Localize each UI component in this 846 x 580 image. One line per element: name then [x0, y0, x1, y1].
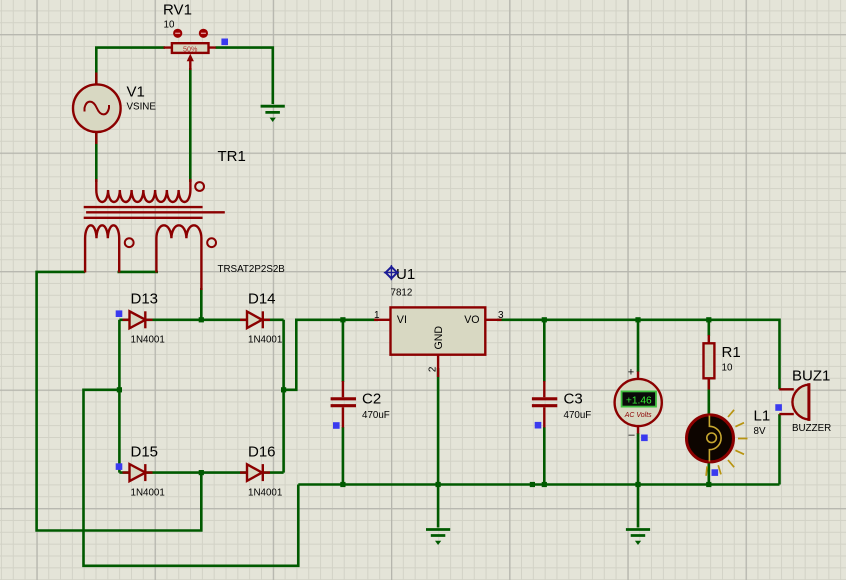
- svg-text:+1.46: +1.46: [626, 395, 652, 406]
- wire meter bottom to rail and ground: [637, 433, 640, 528]
- svg-text:470uF: 470uF: [362, 410, 390, 421]
- node meter top junction: [635, 317, 640, 322]
- node C3 bottom junction: [542, 482, 547, 487]
- regulator U1 7812: [374, 265, 504, 377]
- node bridge left junction: [117, 387, 122, 392]
- svg-text:RV1: RV1: [163, 2, 192, 19]
- svg-text:AC Volts: AC Volts: [624, 412, 652, 419]
- wire bottom ground rail: [298, 483, 779, 486]
- wire C2 bottom branch: [342, 427, 345, 485]
- transformer TR1: [84, 148, 286, 290]
- node C3 top junction: [542, 317, 547, 322]
- svg-text:D13: D13: [131, 291, 159, 308]
- ground under U1 pin 2: [426, 530, 450, 546]
- svg-text:D14: D14: [248, 291, 276, 308]
- diode D13: [123, 291, 165, 346]
- marker C2 blue handle: [333, 422, 340, 429]
- wire TR1 secondary center jumper: [118, 271, 159, 274]
- svg-text:1: 1: [374, 310, 380, 321]
- node C2 top junction: [340, 317, 345, 322]
- wire V1 bottom to TR1 primary left: [95, 132, 98, 182]
- wire R1 top branch: [707, 320, 710, 336]
- buzzer BUZ1: [779, 368, 831, 435]
- wire TR1 sec-right lead down to D13-D14 node: [200, 288, 203, 320]
- svg-text:VI: VI: [397, 314, 407, 326]
- wire C2 top branch: [342, 320, 345, 382]
- marker D15 blue handle: [116, 463, 123, 470]
- marker buzzer blue handle: [775, 404, 782, 411]
- wire RV1 right to ground: [216, 48, 273, 104]
- svg-text:D16: D16: [248, 443, 276, 460]
- wire bottom diode row D15 D16: [119, 471, 283, 474]
- wire C3 bottom branch: [543, 427, 546, 485]
- wire meter top branch: [637, 320, 640, 372]
- marker D13 blue handle: [116, 310, 123, 317]
- svg-text:VO: VO: [464, 314, 479, 326]
- node R1 top junction: [706, 317, 711, 322]
- wire lamp bottom to rail: [707, 460, 710, 485]
- svg-text:470uF: 470uF: [564, 410, 592, 421]
- ground top-right of RV1: [261, 106, 285, 122]
- wire C3 top branch: [543, 320, 546, 382]
- svg-text:BUZ1: BUZ1: [792, 368, 830, 385]
- marker RV1 blue handle: [221, 39, 228, 46]
- svg-text:10: 10: [164, 20, 175, 31]
- svg-text:R1: R1: [722, 344, 741, 361]
- node D13-D14 junction: [199, 317, 204, 322]
- svg-text:C2: C2: [362, 391, 381, 408]
- ground under meter: [626, 530, 650, 546]
- node U1 gnd junction: [436, 482, 441, 487]
- marker lamp blue handle: [712, 469, 719, 476]
- svg-text:3: 3: [498, 310, 504, 321]
- sine source V1: [73, 73, 156, 145]
- svg-text:BUZZER: BUZZER: [792, 423, 831, 434]
- wire bridge left vertical D13-D15: [118, 320, 121, 473]
- wire bridge left node to bottom left loop to ground rail start: [84, 390, 299, 566]
- node C2 bottom junction: [340, 482, 345, 487]
- diode D16: [240, 443, 282, 498]
- svg-text:GND: GND: [433, 326, 445, 350]
- svg-text:V1: V1: [127, 84, 145, 101]
- voltmeter AC Volts: [615, 366, 662, 440]
- svg-text:2: 2: [428, 366, 439, 372]
- svg-text:1N4001: 1N4001: [131, 487, 165, 498]
- svg-text:D15: D15: [131, 443, 159, 460]
- wire TR1 sec-left outer lead to bottom loop to D15-D16 node: [37, 272, 202, 531]
- node bridge right junction: [281, 387, 286, 392]
- marker C3 blue handle: [535, 422, 542, 429]
- capacitor C2: [331, 381, 390, 428]
- node lamp bottom junction: [706, 482, 711, 487]
- wire DC+ takeoff to U1 input rail: [284, 320, 378, 390]
- potentiometer RV1: [163, 2, 216, 71]
- wire RV1 wiper to TR1 primary right: [189, 68, 192, 182]
- svg-text:1N4001: 1N4001: [248, 487, 282, 498]
- svg-text:1N4001: 1N4001: [248, 335, 282, 346]
- node D15-D16 junction: [199, 470, 204, 475]
- wire U1 pin2 to ground: [437, 368, 440, 528]
- svg-text:L1: L1: [754, 408, 771, 425]
- wire U1 output rail to right side down to buzzer top: [497, 320, 780, 390]
- svg-text:10: 10: [722, 363, 733, 374]
- capacitor C3: [532, 381, 591, 428]
- wire V1 top to RV1 left: [96, 48, 165, 84]
- svg-text:50%: 50%: [183, 44, 198, 53]
- svg-text:U1: U1: [396, 266, 415, 283]
- node spare junction left of C3: [530, 482, 535, 487]
- svg-text:TR1: TR1: [218, 148, 246, 165]
- wire buzzer bottom to ground rail: [778, 414, 781, 484]
- svg-text:–: –: [628, 429, 635, 441]
- wire bridge right vertical D14-D16: [282, 320, 285, 473]
- svg-text:8V: 8V: [754, 426, 766, 437]
- diode D15: [123, 443, 165, 498]
- svg-text:VSINE: VSINE: [127, 102, 157, 113]
- lamp L1: [687, 408, 771, 476]
- wire R1 to lamp: [707, 377, 710, 415]
- wire top rail D13 D14 row: [119, 318, 283, 321]
- svg-text:1N4001: 1N4001: [131, 335, 165, 346]
- svg-text:7812: 7812: [391, 288, 413, 299]
- svg-text:+: +: [628, 366, 634, 378]
- svg-text:TRSAT2P2S2B: TRSAT2P2S2B: [218, 264, 286, 275]
- diode D14: [240, 291, 282, 346]
- node meter bottom junction: [635, 482, 640, 487]
- marker meter blue handle: [641, 435, 648, 442]
- svg-text:C3: C3: [564, 391, 583, 408]
- resistor R1: [704, 335, 741, 390]
